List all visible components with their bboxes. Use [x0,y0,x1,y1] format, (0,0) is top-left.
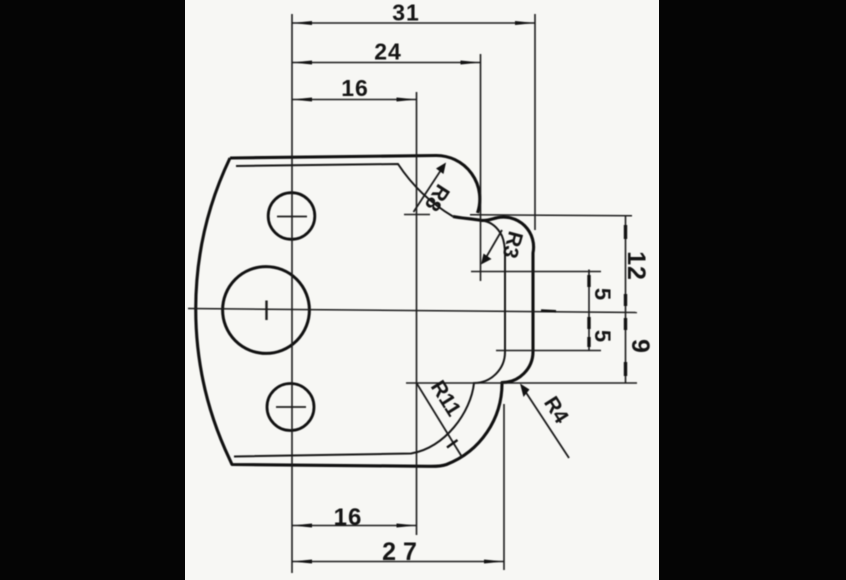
hole top center tick [277,216,307,218]
dimension 27 line [292,561,504,563]
radius R11 leader line [417,383,463,457]
dimension 31 line [292,22,535,24]
radius R4 leader line [525,391,569,458]
tick 5/5 center [587,317,590,329]
radius R3 leader line [484,230,502,261]
dimension 24 arrow right [461,61,481,65]
vertical extension line x=535 (31 dim) [534,14,536,230]
svg-text:5: 5 [590,330,615,342]
svg-text:16: 16 [334,504,363,531]
vertical extension line x=416.5 (16 dim / arc centers) [416,92,418,535]
tick 9 bottom [624,362,627,376]
dimension 16 bottom line [292,525,417,527]
dimension 31 arrow right [515,21,535,25]
vertical extension line x=292 (hole centerline) [291,14,293,573]
tick 12 top [624,225,627,239]
svg-text:9: 9 [626,339,654,354]
dimension line 5/5 vertical [588,270,590,351]
tick 12 lower end [624,294,627,306]
dimension 16 top arrow right [397,98,417,102]
scan left black bar [0,0,185,580]
svg-text:R8: R8 [420,180,454,215]
dimension 16 bottom arrow right [397,524,417,528]
hole top small [268,193,315,240]
hole large center tick [265,301,267,321]
svg-text:12: 12 [622,251,650,281]
svg-text:31: 31 [392,0,420,26]
hole bottom small [267,384,314,431]
dimension 27 arrow left [292,560,312,564]
hole bottom center tick [276,406,306,408]
hole large center [223,267,310,354]
vertical extension line x=480.5 (24 dim) [480,54,482,281]
tick 5 lower end [587,337,590,347]
radius R4 arrowhead [520,384,530,398]
tick 9 upper end [624,318,627,330]
bevel second line top and R8 inner arc [236,164,453,217]
svg-text:16: 16 [341,75,369,101]
svg-text:24: 24 [374,39,402,65]
dimension 16 top line [292,99,417,101]
extension line 5 lower [496,350,601,352]
dimension line 12 and 9 vertical [625,216,627,383]
centerline tick at nose [541,309,556,312]
tick 5 upper end [587,275,590,287]
bevel second line nose, cove, bottom [234,221,505,457]
part outline ledge, nose, cove, bottom and left edge [196,158,534,466]
dimension 27 arrow right [484,560,504,564]
dimension 31 arrow left [292,21,312,25]
horizontal centerline [188,309,637,313]
radius R3 arrowhead [481,254,492,265]
extension line 12 top [470,214,632,217]
radius R8 arrowhead [436,163,446,175]
dimension 16 bottom arrow left [292,524,312,528]
svg-text:R3: R3 [498,229,527,261]
R8 center cross tick [404,214,430,216]
svg-text:5: 5 [590,288,615,300]
extension line 5 upper [471,271,601,273]
svg-text:R4: R4 [539,393,573,428]
extension line 9 bottom [406,382,637,384]
vertical extension line x=504 (27 dim) [503,404,505,570]
svg-text:27: 27 [382,538,424,566]
part outline top edge and R8 step arc [230,155,480,213]
radius R11 tick on arc [447,440,458,448]
radius R8 leader line [414,170,442,212]
dimension 24 arrow left [292,61,312,65]
dimension 16 top arrow left [292,98,312,102]
scan right black bar [659,0,846,580]
dimension 24 line [292,62,481,64]
